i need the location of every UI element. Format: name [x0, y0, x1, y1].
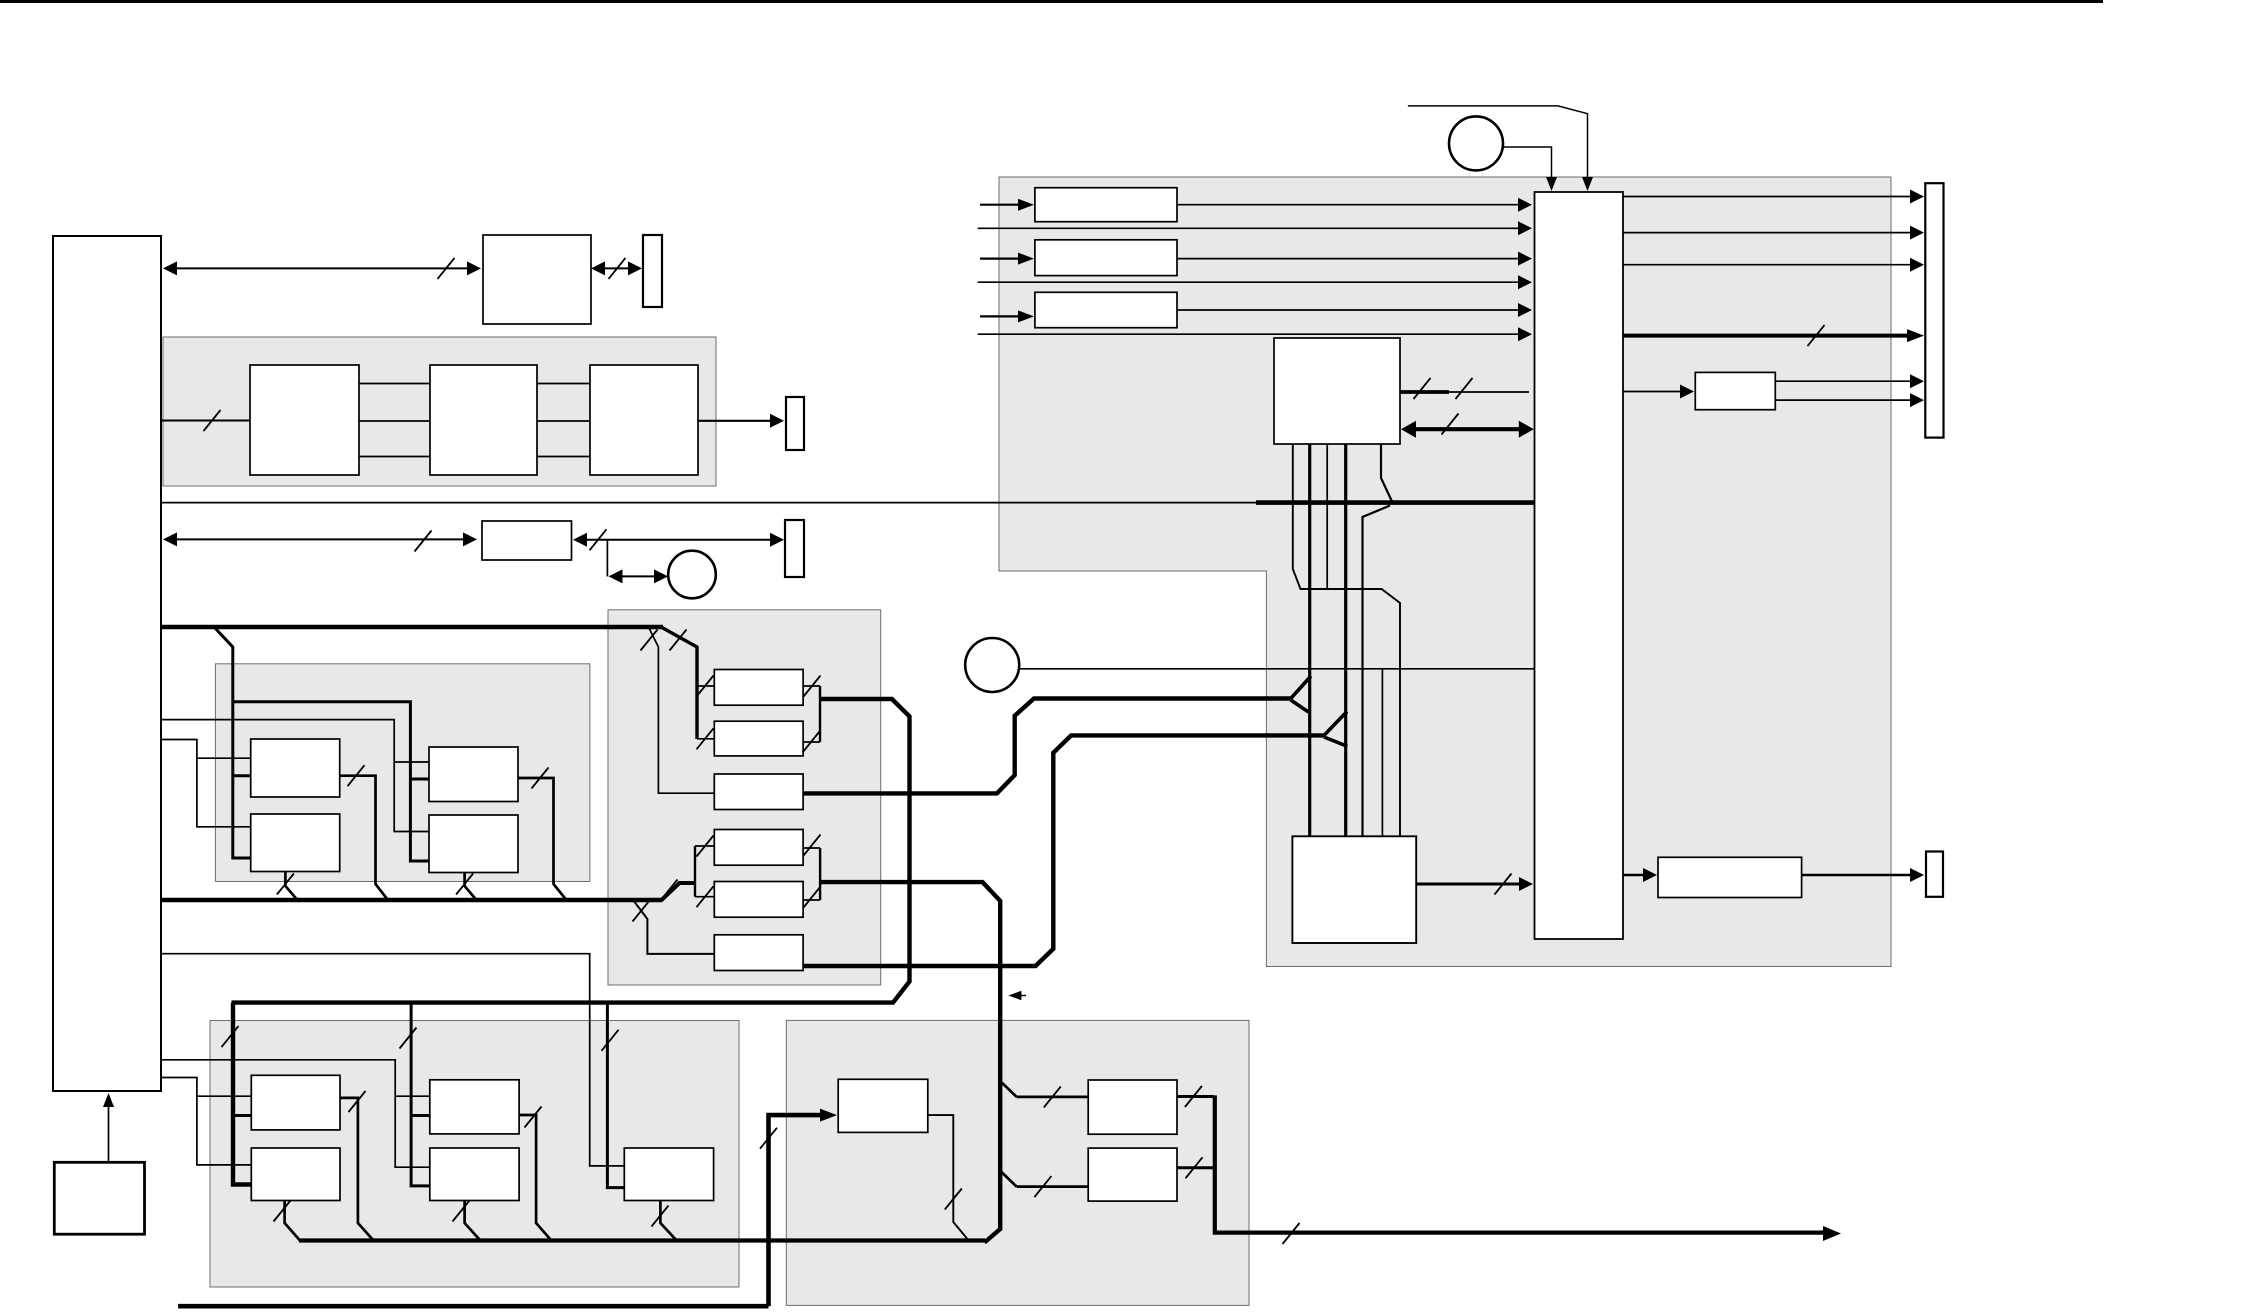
- bus width slash on B1L output: [348, 765, 365, 786]
- bus width slash R1 out: [804, 676, 821, 697]
- input capture box 3: [1035, 292, 1177, 327]
- bus: thick lead into T1a: [233, 1114, 251, 1117]
- bus: thick lead into box B1R: [410, 778, 429, 781]
- arrowhead down into mux top left: [1546, 177, 1557, 191]
- bus: lead into O1: [1017, 1096, 1089, 1099]
- wire: lead into register R2: [697, 738, 714, 740]
- wire: box P output jog: [928, 1115, 969, 1240]
- arrowhead right on X-mux bus: [1519, 421, 1534, 438]
- wire: R1R2 join vertical: [819, 686, 821, 742]
- arrowhead into capture box: [1018, 310, 1034, 322]
- arrowhead down into mux top right: [1582, 177, 1593, 191]
- bus: B1L output drop: [340, 776, 388, 900]
- bus width slash on T2a out: [525, 1107, 542, 1128]
- wire: chain output to port A3: [698, 420, 772, 422]
- gray region: timer group 1: [215, 664, 590, 882]
- box T1a: [251, 1075, 340, 1130]
- chain box B1: [250, 365, 359, 475]
- bus: R1R2 output bus to timers: [232, 699, 910, 1185]
- arrowhead into box P: [820, 1109, 837, 1122]
- bus width slash on T1a out: [349, 1091, 366, 1112]
- wire: address out thin tail: [1449, 391, 1529, 393]
- wire: R4/R5 feed vertical: [694, 846, 696, 897]
- box X (pointer logic): [1274, 338, 1400, 444]
- register R6: [714, 935, 803, 971]
- bus width slash on R4 lead: [697, 836, 714, 857]
- wire: chain link B1-B2: [359, 456, 430, 458]
- input capture box 2: [1035, 240, 1177, 276]
- register R1: [714, 670, 803, 706]
- bus: T3 column thick feed: [607, 1003, 624, 1188]
- wire: capture box output to mux: [1177, 258, 1524, 260]
- timer box B1R: [429, 747, 518, 802]
- bus width slash on T1b drop: [274, 1201, 291, 1222]
- arrowhead into IO register from D lower: [1910, 393, 1924, 407]
- bus: B2L bottom drop: [285, 872, 297, 900]
- wire: branch from clock line into box Y: [1381, 669, 1383, 836]
- bus: R3 junction chamfer down: [1291, 700, 1309, 712]
- bus: lead into O2: [1017, 1185, 1089, 1188]
- wire: branch down to clock circle: [606, 540, 608, 577]
- wire: oscillator to CPU core: [108, 1100, 110, 1162]
- bus: thick lead into box B1L: [233, 774, 251, 777]
- bus width slash on R2 lead: [697, 728, 714, 749]
- bus: R6 output bus: [803, 735, 1324, 966]
- arrowhead into mux (pass line): [1518, 221, 1532, 235]
- wire: input to chain box B1: [161, 420, 250, 422]
- bus: T1a output drop: [340, 1098, 373, 1240]
- wire: control into timer right column: [161, 720, 429, 832]
- bus: chamfer up to registers R4/R5: [661, 883, 695, 901]
- bus: feedback riser to box P: [769, 1115, 830, 1306]
- wire: R1 output lead: [803, 685, 820, 687]
- bus: thick lead into T2a: [411, 1114, 430, 1117]
- wire: chain link B2-B3: [537, 456, 590, 458]
- wire: bus to box C (bidirectional): [170, 538, 470, 540]
- bus: box X pin2 thick: [1308, 444, 1311, 836]
- bus width slash R4 out: [804, 835, 821, 856]
- wire: pin5 jog below bus: [1363, 506, 1391, 837]
- box T2b: [430, 1148, 519, 1201]
- bus: output bus to pin (L-shape): [1215, 1095, 1832, 1232]
- bus: chamfer into timer group 1: [215, 628, 251, 858]
- wire: control to T2 column: [161, 1060, 430, 1167]
- arrowhead into IO register: [1910, 258, 1924, 272]
- bus width slash on bus-C: [415, 531, 432, 552]
- register R4: [714, 830, 803, 866]
- wire: clock line from circle to mux: [1019, 668, 1534, 670]
- wire: lead into register R5: [695, 896, 714, 898]
- wire: thin branch to register R3: [649, 628, 714, 793]
- box T1b: [251, 1148, 340, 1201]
- floating arrowhead pointing left: [1008, 991, 1021, 1001]
- top border line: [0, 0, 2103, 3]
- bus width slash on B2L drop: [277, 874, 294, 895]
- bus width slash R2 out: [803, 732, 820, 753]
- bus: R3 output bus: [803, 699, 1291, 794]
- wire: polyline into mux top: [1408, 106, 1588, 183]
- wire: mux output to IO register: [1623, 264, 1916, 266]
- bus: B2R bottom drop: [465, 873, 476, 900]
- bus width slash on output bus: [1283, 1223, 1300, 1244]
- wire: lead into B1R: [394, 761, 429, 763]
- clock circle 2a: [668, 551, 716, 599]
- wire: box L output: [1802, 874, 1913, 876]
- port rect R2o: [1926, 852, 1943, 897]
- bus width slash on mux thick output: [1808, 325, 1825, 346]
- oscillator box: [54, 1162, 144, 1234]
- box L (prescaler): [1658, 857, 1802, 897]
- bus: thick branch to right timer column: [233, 702, 429, 861]
- bus width slash on P output: [945, 1189, 962, 1210]
- arrowhead into IO register (thick): [1907, 329, 1924, 342]
- box P (compare): [838, 1079, 928, 1132]
- gray region: serial interface group: [163, 337, 716, 486]
- wire: box X pin1 jog to box Y: [1293, 444, 1400, 836]
- bus width slash on R4R5 chamfer: [661, 880, 678, 901]
- floating arrowhead tail: [1021, 995, 1026, 997]
- bus width slash on address out: [1414, 378, 1431, 399]
- bus: R6 junction chamfer up: [1324, 712, 1347, 736]
- wire: control to T1 column: [161, 1078, 251, 1165]
- bus: chamfer into register file: [661, 627, 697, 739]
- wire: box A to port A2 (bidirectional): [598, 267, 634, 269]
- bus: long control line to mux (thick part): [1256, 500, 1537, 505]
- bus: mux thick output to IO register: [1623, 334, 1914, 338]
- arrowhead output pin: [1823, 1226, 1841, 1241]
- wire: mux output to box D: [1623, 391, 1686, 393]
- arrowhead into mux from box Y: [1519, 877, 1533, 891]
- timer box B2L: [251, 814, 340, 872]
- wire: long control line to mux (thin part): [161, 502, 1256, 504]
- box D (edge detect): [1695, 372, 1775, 409]
- bus width slash on B2R drop: [456, 874, 473, 895]
- wire: chamfer down to register R6: [633, 900, 714, 954]
- wire: box D output lower: [1775, 399, 1916, 401]
- register R2: [714, 721, 803, 756]
- bus width slash on B1R output: [532, 768, 549, 789]
- box C (interface 2): [482, 521, 572, 560]
- bus width slash on B1 input: [204, 410, 221, 431]
- wire: lead into register R4: [695, 845, 714, 847]
- wire: lead into T1a: [197, 1095, 251, 1097]
- bus width slash A-A2: [609, 258, 626, 279]
- bus width slash on R1 lead: [697, 676, 714, 697]
- bus: box Y output to mux: [1416, 883, 1526, 886]
- wire: bus to box A (bidirectional): [170, 267, 474, 269]
- wire: mux to box L: [1623, 874, 1646, 876]
- arrowhead left on X-mux bus: [1401, 421, 1416, 438]
- bus: box X data bus to mux (bidirectional): [1408, 427, 1526, 431]
- arrowhead into mux (capture out): [1518, 198, 1532, 212]
- mux tall box: [1535, 192, 1624, 939]
- input capture box 1: [1035, 188, 1177, 222]
- wire: lead into T2a: [395, 1095, 430, 1097]
- bus: bottom feedback line: [178, 1304, 768, 1309]
- bus: T3 bottom drop: [660, 1201, 676, 1241]
- wire: mux output to IO register: [1623, 232, 1916, 234]
- bus width slash on O1 out: [1185, 1086, 1202, 1107]
- arrowhead left A-A2: [591, 261, 605, 275]
- arrowhead left to branch: [609, 569, 623, 583]
- gray region: register file group: [608, 610, 881, 985]
- bus width slash on R5 lead: [697, 886, 714, 907]
- arrowhead up into CPU core: [103, 1093, 114, 1107]
- arrowhead right A-A2: [628, 261, 642, 275]
- wire: chain link B1-B2: [359, 383, 430, 385]
- wire: R5 output lead: [803, 899, 820, 901]
- bus width slash on T2 feed: [400, 1028, 417, 1049]
- bus width slash on feedback riser: [760, 1128, 777, 1149]
- bus: R4R5 output bus descending: [820, 882, 1000, 1242]
- box O1 (output compare 1): [1088, 1080, 1177, 1134]
- bus: T1b bottom drop: [285, 1201, 300, 1241]
- bus: O1 output lead: [1177, 1095, 1214, 1098]
- arrowhead right on bus-A: [467, 261, 481, 275]
- wire: lead into B1L: [197, 757, 251, 759]
- wire: box C to port A4: [580, 539, 772, 541]
- wire: chain link B2-B3: [537, 420, 590, 422]
- chain box B3: [590, 365, 698, 475]
- port rect A2: [643, 235, 662, 307]
- bus width slash on O1 lead: [1044, 1086, 1061, 1107]
- box O2 (output compare 2): [1088, 1148, 1177, 1201]
- wire: pass-through line to mux: [978, 333, 1524, 335]
- wire: external input stub: [980, 258, 1026, 260]
- arrowhead into capture box: [1018, 253, 1034, 265]
- bus width slash on address tail: [1456, 378, 1473, 399]
- bus width slash on T3 drop: [652, 1206, 669, 1227]
- arrowhead into capture box: [1018, 199, 1034, 211]
- wire: capture box output to mux: [1177, 204, 1524, 206]
- arrowhead into mux (capture out): [1518, 303, 1532, 317]
- arrowhead into mux (pass line): [1518, 327, 1532, 341]
- bus: T2b bottom drop: [465, 1201, 481, 1241]
- bus width slash on X-mux bus: [1442, 414, 1459, 435]
- clock circle 1: [1449, 116, 1503, 170]
- arrowhead into IO register: [1910, 226, 1924, 240]
- wire: clock circle 1 to mux top: [1503, 147, 1552, 183]
- chain box B2: [430, 365, 537, 475]
- wire: R2 output lead: [803, 741, 820, 743]
- wire: capture box output to mux: [1177, 309, 1524, 311]
- bus: main data bus upper: [161, 625, 663, 630]
- wire: chain link B2-B3: [537, 383, 590, 385]
- bus width slash on R6 chamfer: [633, 901, 650, 922]
- box A (interface): [483, 235, 591, 324]
- arrowhead into IO register from D upper: [1910, 374, 1924, 388]
- arrowhead left on bus-A: [163, 261, 177, 275]
- port rect A3: [786, 397, 804, 450]
- bus width slash R5 out: [804, 887, 821, 908]
- gray region: output stage group: [786, 1020, 1249, 1305]
- arrowhead left on bus-C: [163, 532, 177, 546]
- arrowhead into mux (capture out): [1518, 252, 1532, 266]
- wire: mux output to IO register: [1623, 196, 1916, 198]
- wire: lead into register R1: [697, 685, 714, 687]
- bus width slash on bus-A: [438, 258, 455, 279]
- timer box B1L: [251, 739, 340, 797]
- arrowhead into port R2o: [1910, 868, 1924, 882]
- bus: O2 output lead: [1177, 1166, 1214, 1169]
- wire: R4 output lead: [803, 847, 820, 849]
- bus width slash C-A4: [590, 529, 607, 550]
- gray region: right peripheral/mux group: [999, 177, 1891, 967]
- bus: T2 column thick feed: [411, 1003, 430, 1186]
- wire: external input stub: [980, 204, 1026, 206]
- bus width slash on O2 lead: [1034, 1176, 1051, 1197]
- wire: box X pin5 jog across bus: [1381, 444, 1392, 502]
- wire: branch from main vertical to O2: [999, 1170, 1016, 1187]
- wire: box D output upper: [1775, 380, 1916, 382]
- arrowhead into port A4: [770, 533, 784, 547]
- register R3: [714, 774, 803, 810]
- bus width slash on O2 out: [1186, 1157, 1203, 1178]
- box Y (counter): [1292, 836, 1416, 943]
- bus width slash on chamfer 1: [641, 630, 658, 651]
- box T2a: [430, 1080, 519, 1134]
- arrowhead right on bus-C: [463, 532, 477, 546]
- bus width slash on T2b drop: [453, 1201, 470, 1222]
- arrowhead into box L: [1643, 868, 1657, 882]
- arrowhead into port A3: [770, 414, 784, 428]
- wire: branch from main vertical to O1: [999, 1080, 1016, 1097]
- port rect A4: [785, 520, 804, 577]
- wire: chain link B1-B2: [359, 420, 430, 422]
- CPU core tall rect: [53, 236, 161, 1091]
- timer box B2R: [429, 815, 518, 873]
- wire: external input stub: [980, 315, 1026, 317]
- bus: B1R output drop: [518, 778, 566, 900]
- wire: branch to clock circle (bidirectional): [614, 575, 662, 577]
- bus width slash on T1 feed: [222, 1026, 239, 1047]
- bus: box X pin4 thick: [1344, 444, 1347, 836]
- bus: R3 junction chamfer up: [1291, 676, 1311, 699]
- bus: timer output bus bottom: [299, 1238, 985, 1242]
- arrowhead into box C right side: [573, 533, 587, 547]
- box T3: [624, 1148, 713, 1201]
- arrowhead into box D: [1680, 385, 1694, 399]
- arrowhead right into clock circle: [654, 569, 668, 583]
- gray region: timer group 2: [210, 1021, 739, 1288]
- clock circle 2: [965, 638, 1019, 692]
- bus width slash on Y output: [1495, 874, 1512, 895]
- register R5: [714, 882, 803, 918]
- arrowhead into mux (pass line): [1518, 275, 1532, 289]
- wire: R4R5 join vertical: [819, 848, 821, 900]
- wire: pass-through line to mux: [978, 227, 1524, 229]
- wire: pass-through line to mux: [978, 281, 1524, 283]
- bus: R6 junction chamfer down: [1324, 737, 1347, 746]
- bus width slash on chamfer 2: [670, 630, 687, 651]
- bus: box X address out: [1400, 390, 1449, 394]
- bus width slash on T3 feed: [602, 1030, 619, 1051]
- bus: T2a output drop: [519, 1115, 551, 1240]
- wire: control to T3 column: [161, 954, 624, 1166]
- arrowhead into IO register: [1910, 190, 1924, 204]
- wire: control into timer left column: [161, 740, 251, 827]
- wire: box X pin3 down: [1326, 444, 1328, 589]
- bus: main data bus lower: [161, 898, 662, 903]
- IO register tall rect: [1925, 183, 1943, 437]
